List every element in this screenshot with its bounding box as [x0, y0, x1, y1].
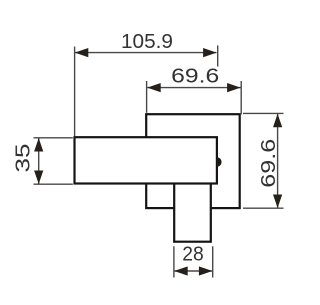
dimension 105.9 line — [75, 52, 217, 54]
dimension 28 right extension line — [212, 246, 214, 277]
dimension 69.6 (right) bottom extension line — [243, 207, 284, 209]
spout body (horizontal rectangle) — [75, 137, 217, 183]
side knob bump on spout right edge — [217, 157, 222, 166]
dimension 69.6 (top) right extension line — [240, 81, 242, 115]
dimension 35 line — [38, 138, 40, 184]
dimension 35 top extension line — [34, 137, 73, 139]
dimension 105.9 left arrowhead — [75, 48, 89, 57]
dimension 69.6 (right) line — [277, 114, 279, 208]
dimension 105.9 right extension line — [217, 46, 219, 67]
svg-text:28: 28 — [182, 244, 204, 266]
dimension 28 left arrowhead — [174, 266, 188, 275]
valve body (vertical rectangle below) — [174, 165, 211, 242]
svg-text:35: 35 — [13, 144, 35, 173]
dimension 28 right arrowhead — [199, 266, 213, 275]
svg-text:69.6: 69.6 — [258, 139, 280, 188]
dimension 28 line — [174, 270, 212, 272]
dimension 69.6 (top) right arrowhead — [227, 83, 241, 92]
dimension 105.9 right arrowhead — [203, 48, 217, 57]
dimension 35 bottom extension line — [34, 183, 73, 185]
wall plate (square flange) — [146, 114, 240, 208]
dimension 69.6 (top) left extension line — [146, 81, 148, 113]
svg-text:69.6: 69.6 — [171, 66, 219, 88]
dimension 69.6 (right) down arrowhead — [273, 195, 282, 209]
dimension 105.9 left extension line — [74, 47, 76, 137]
dimension 69.6 (right) top extension line — [243, 112, 284, 114]
svg-text:105.9: 105.9 — [121, 31, 173, 53]
dimension 28 left extension line — [173, 246, 175, 277]
dimension 35 down arrowhead — [34, 171, 43, 185]
dimension 35 up arrowhead — [34, 138, 43, 152]
dimension 69.6 (right) up arrowhead — [273, 114, 282, 128]
dimension 69.6 (top) left arrowhead — [147, 83, 161, 92]
dimension 69.6 (top) line — [147, 87, 240, 89]
